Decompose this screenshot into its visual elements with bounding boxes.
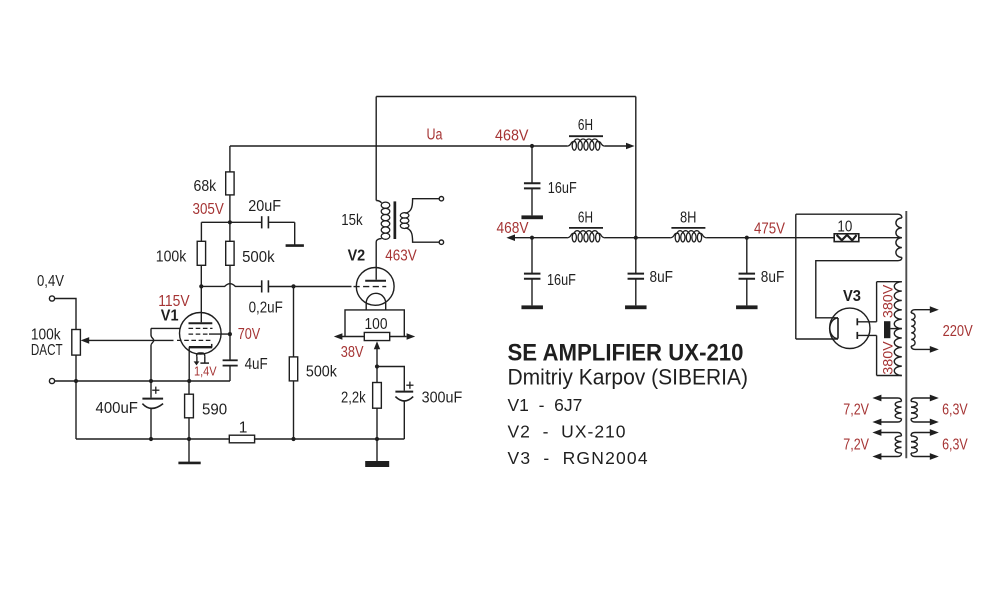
svg-text:2,2k: 2,2k — [341, 389, 366, 406]
svg-text:6,3V: 6,3V — [942, 437, 968, 454]
svg-text:8uF: 8uF — [650, 269, 674, 286]
svg-text:V1: V1 — [161, 308, 179, 325]
svg-text:0,4V: 0,4V — [37, 273, 65, 290]
svg-text:V2: V2 — [348, 247, 366, 264]
svg-text:500k: 500k — [242, 249, 275, 266]
svg-text:380V: 380V — [880, 285, 895, 318]
svg-text:380V: 380V — [880, 341, 895, 374]
svg-text:V1 - 6J7: V1 - 6J7 — [508, 395, 583, 415]
svg-text:6,3V: 6,3V — [942, 402, 968, 419]
svg-text:468V: 468V — [497, 220, 530, 237]
svg-text:70V: 70V — [238, 326, 261, 343]
svg-text:68k: 68k — [194, 178, 217, 195]
svg-text:DACT: DACT — [31, 342, 63, 359]
svg-text:100k: 100k — [31, 327, 61, 344]
svg-text:100k: 100k — [156, 249, 187, 266]
svg-text:468V: 468V — [495, 128, 529, 145]
svg-text:475V: 475V — [754, 221, 786, 238]
svg-text:15k: 15k — [341, 212, 363, 229]
svg-text:SE AMPLIFIER UX-210: SE AMPLIFIER UX-210 — [508, 339, 744, 366]
svg-text:38V: 38V — [341, 344, 364, 361]
svg-text:4uF: 4uF — [245, 356, 268, 373]
svg-text:100: 100 — [365, 316, 388, 333]
svg-text:V2 - UX-210: V2 - UX-210 — [508, 422, 627, 442]
svg-text:300uF: 300uF — [422, 389, 463, 406]
svg-text:7,2V: 7,2V — [843, 437, 869, 454]
svg-text:7,2V: 7,2V — [843, 402, 869, 419]
svg-text:590: 590 — [202, 402, 228, 419]
svg-text:10: 10 — [837, 219, 852, 236]
svg-text:6H: 6H — [578, 117, 593, 134]
svg-text:8uF: 8uF — [761, 269, 785, 286]
svg-text:V3 - RGN2004: V3 - RGN2004 — [508, 448, 649, 468]
svg-text:8H: 8H — [680, 210, 697, 227]
svg-text:1,4V: 1,4V — [194, 364, 217, 379]
svg-text:0,2uF: 0,2uF — [249, 300, 283, 317]
svg-text:V3: V3 — [843, 288, 861, 305]
svg-text:400uF: 400uF — [96, 400, 138, 417]
svg-text:16uF: 16uF — [547, 272, 576, 289]
svg-text:20uF: 20uF — [248, 198, 281, 215]
svg-text:500k: 500k — [306, 364, 337, 381]
svg-text:220V: 220V — [943, 323, 974, 340]
svg-text:305V: 305V — [193, 201, 225, 218]
svg-text:463V: 463V — [385, 247, 417, 264]
svg-text:16uF: 16uF — [548, 180, 577, 197]
svg-text:Dmitriy Karpov (SIBERIA): Dmitriy Karpov (SIBERIA) — [508, 365, 749, 390]
svg-text:1: 1 — [239, 420, 248, 437]
svg-text:6H: 6H — [578, 210, 593, 227]
svg-text:Ua: Ua — [427, 126, 443, 143]
